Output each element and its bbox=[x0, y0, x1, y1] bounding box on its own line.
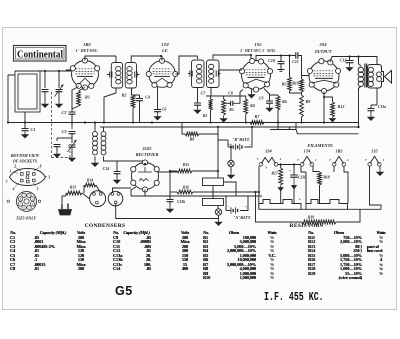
AC plug bbox=[62, 204, 68, 210]
filament 1T4 bbox=[303, 156, 312, 163]
wire trans pri bottom bbox=[358, 92, 360, 128]
svg-text:5: 5 bbox=[265, 166, 267, 170]
trimmer cap T2b bbox=[216, 71, 220, 77]
wire blocks bottom link bbox=[301, 208, 381, 210]
svg-text:C4: C4 bbox=[145, 95, 150, 100]
wire tube3 top bbox=[256, 56, 295, 61]
svg-text:C8: C8 bbox=[228, 92, 233, 96]
IF transformer T1 secondary bbox=[125, 63, 136, 89]
pilot lamp 2 bbox=[217, 206, 219, 210]
svg-text:C1: C1 bbox=[31, 127, 36, 132]
wire loop bottom to C1 bbox=[24, 112, 26, 128]
battery block B bbox=[306, 200, 348, 210]
wire osc coil tops bbox=[95, 123, 104, 132]
svg-text:7: 7 bbox=[365, 158, 367, 162]
wire tube4 bottom bbox=[323, 92, 325, 124]
svg-text:4: 4 bbox=[12, 187, 15, 191]
wire tube1 grid bbox=[66, 70, 72, 71]
svg-text:C13b: C13b bbox=[298, 176, 306, 180]
wire tube3 grid left bbox=[219, 65, 242, 70]
resistor R5b bbox=[289, 56, 291, 78]
battery block A bbox=[259, 196, 301, 210]
variable capacitor tuning B bbox=[58, 71, 60, 88]
wire fil drops bbox=[259, 166, 381, 209]
wire T1 pri bottom bbox=[104, 88, 116, 123]
svg-text:FILAMENTS: FILAMENTS bbox=[307, 143, 333, 148]
tube V3 1S5 bbox=[242, 61, 271, 90]
svg-text:7: 7 bbox=[329, 158, 331, 162]
svg-text:BOTTOM VIEW: BOTTOM VIEW bbox=[10, 153, 40, 158]
wire fil links bbox=[333, 166, 335, 172]
pilot lamp 1 bbox=[230, 147, 232, 160]
svg-text:RECTIFIER: RECTIFIER bbox=[136, 152, 159, 157]
filament 1R5 bbox=[335, 156, 344, 163]
wire tube1 osc grid bbox=[72, 87, 79, 110]
svg-text:R6: R6 bbox=[282, 99, 287, 104]
svg-text:+: + bbox=[289, 169, 291, 173]
switch circle 1 bbox=[90, 191, 106, 207]
resistor R1 bbox=[79, 88, 86, 92]
wire rect bottom bbox=[131, 187, 218, 196]
tube V4 3S4 bbox=[309, 61, 339, 91]
svg-text:2 ˉ DET-AVC-1 ˉ AUD.: 2 ˉ DET-AVC-1 ˉ AUD. bbox=[239, 49, 275, 53]
ground tube3 cathode bbox=[251, 90, 253, 92]
svg-text:1T4: 1T4 bbox=[161, 42, 169, 47]
junction dots bbox=[44, 70, 46, 72]
svg-text:3: 3 bbox=[47, 176, 50, 180]
trimmer cap T2a bbox=[188, 71, 192, 77]
wire T1 sec bottom bbox=[131, 88, 133, 92]
wire audio node bbox=[206, 88, 246, 96]
ground tuning A bbox=[42, 101, 48, 107]
wire T2 top link bbox=[213, 55, 251, 60]
wire tube2 top bbox=[131, 56, 162, 63]
filament 1S5 bbox=[370, 156, 379, 163]
svg-text:"A"BATT.: "A"BATT. bbox=[233, 215, 251, 220]
wire tube4 top plate bbox=[330, 57, 359, 65]
socket bottom view 7pin bbox=[10, 169, 46, 186]
svg-text:7: 7 bbox=[257, 157, 259, 161]
svg-text:5: 5 bbox=[37, 187, 39, 191]
ground fil 1S5 bbox=[379, 166, 381, 169]
svg-text:R18: R18 bbox=[323, 176, 329, 180]
svg-text:C12: C12 bbox=[340, 58, 347, 63]
resistor R3 bbox=[209, 99, 213, 110]
wire osc coil right bottom bbox=[104, 157, 146, 162]
wire A batt bbox=[218, 196, 262, 211]
loop antenna L1 bbox=[15, 71, 40, 112]
resistor R12 bbox=[324, 97, 333, 102]
wire padder branch bbox=[57, 137, 72, 139]
svg-text:C13b: C13b bbox=[177, 200, 185, 204]
output transformer T3 secondary bbox=[368, 65, 384, 89]
IF transformer T1 primary bbox=[111, 63, 122, 89]
wire antenna left drop bbox=[8, 75, 15, 123]
capacitor padder bbox=[54, 145, 61, 147]
oscillator coil L2 bbox=[93, 132, 98, 137]
svg-text:R12: R12 bbox=[338, 104, 345, 109]
svg-text:C9: C9 bbox=[259, 96, 264, 101]
svg-text:R16: R16 bbox=[183, 186, 189, 190]
ground tuning B bbox=[56, 101, 62, 107]
svg-text:C10: C10 bbox=[268, 58, 275, 63]
svg-text:−: − bbox=[227, 205, 229, 209]
speaker bbox=[385, 71, 392, 84]
svg-text:1 ˉ DET-OSC.: 1 ˉ DET-OSC. bbox=[76, 48, 99, 53]
battery B bbox=[228, 146, 231, 148]
ground osc coil bbox=[92, 160, 98, 166]
ground osc tune bbox=[69, 155, 75, 161]
wire osc coil bottoms bbox=[94, 157, 96, 161]
wire R13 up bbox=[65, 193, 67, 196]
svg-text:R19: R19 bbox=[308, 216, 314, 220]
wire switch2 to rect bbox=[113, 188, 132, 193]
svg-text:1R5: 1R5 bbox=[336, 149, 343, 154]
resistor R10 bbox=[300, 79, 304, 92]
svg-text:R8: R8 bbox=[190, 137, 195, 142]
wire blocks link bbox=[213, 182, 236, 199]
wire tube1 plate top bbox=[85, 56, 116, 61]
switch circle 2 bbox=[108, 191, 123, 206]
svg-text:R5: R5 bbox=[229, 108, 234, 112]
resistor R4 bbox=[244, 99, 248, 114]
svg-text:1S5: 1S5 bbox=[371, 149, 378, 154]
fil bus bbox=[230, 191, 259, 193]
capacitor C1 bbox=[22, 129, 29, 131]
battery A bbox=[226, 210, 231, 212]
svg-text:C14: C14 bbox=[103, 166, 110, 171]
svg-text:7: 7 bbox=[297, 158, 299, 162]
wire trans sec top bbox=[359, 57, 378, 65]
svg-text:C13a: C13a bbox=[378, 105, 386, 109]
resistor R7 bbox=[250, 121, 264, 125]
svg-text:8: 8 bbox=[40, 165, 42, 169]
volume control R5 bbox=[222, 99, 226, 115]
svg-text:C6: C6 bbox=[162, 107, 167, 112]
wire drop x218 bbox=[217, 127, 219, 178]
IF transformer T2 primary bbox=[192, 60, 205, 88]
svg-text:OF SOCKETS: OF SOCKETS bbox=[13, 159, 38, 164]
svg-text:−: − bbox=[249, 143, 251, 147]
svg-text:R9: R9 bbox=[306, 99, 311, 104]
wire tube2 plate right bbox=[175, 56, 197, 74]
svg-text:R10: R10 bbox=[292, 82, 298, 86]
resistor R8 bbox=[182, 123, 185, 135]
IF transformer T2 secondary bbox=[207, 60, 220, 88]
svg-text:1T4: 1T4 bbox=[304, 149, 311, 154]
svg-text:2: 2 bbox=[13, 165, 16, 169]
wire switch bottom bbox=[116, 204, 218, 219]
svg-text:R5: R5 bbox=[282, 82, 287, 87]
svg-text:R4: R4 bbox=[250, 103, 255, 108]
wire antenna top bbox=[15, 70, 71, 72]
trimmer cap T1a bbox=[107, 72, 112, 78]
svg-text:3S4: 3S4 bbox=[264, 149, 272, 154]
svg-text:R14: R14 bbox=[87, 179, 93, 183]
svg-text:1S5: 1S5 bbox=[254, 42, 262, 47]
tube V2 1T4 bbox=[149, 61, 176, 88]
ground below C1 bbox=[22, 132, 28, 138]
wire rect cathode right bbox=[159, 171, 178, 173]
svg-text:+: + bbox=[245, 205, 247, 209]
svg-text:1: 1 bbox=[347, 158, 349, 162]
bus main A bbox=[8, 122, 359, 124]
svg-text:C11: C11 bbox=[292, 59, 298, 64]
bus main B bbox=[100, 126, 359, 128]
svg-text:R1: R1 bbox=[85, 95, 90, 100]
wire fil 1T4 link bbox=[301, 166, 306, 172]
tube V5 35Z5 bbox=[132, 163, 159, 190]
svg-text:R2: R2 bbox=[122, 93, 127, 98]
svg-text:7: 7 bbox=[6, 180, 8, 184]
svg-text:OUTPUT: OUTPUT bbox=[315, 49, 332, 54]
wire trans sec bottom bbox=[376, 88, 378, 105]
svg-text:35Z5: 35Z5 bbox=[141, 146, 152, 151]
tube V1 1R5 bbox=[72, 61, 99, 88]
svg-text:C2: C2 bbox=[62, 110, 67, 115]
svg-text:R15: R15 bbox=[183, 163, 189, 167]
svg-text:R13: R13 bbox=[70, 186, 76, 190]
filament 3S4 (double) bbox=[262, 158, 276, 164]
variable capacitor osc tune bbox=[69, 145, 76, 147]
wire fil 3S4 to 1T4 bbox=[278, 164, 301, 166]
svg-text:"B"BATT.: "B"BATT. bbox=[232, 137, 250, 142]
svg-text:1: 1 bbox=[280, 157, 282, 161]
svg-text:1: 1 bbox=[10, 170, 12, 174]
gang dashed link bbox=[52, 92, 71, 158]
svg-text:35Z5 ONLY: 35Z5 ONLY bbox=[15, 216, 37, 221]
capacitor trimmer A bbox=[44, 71, 46, 88]
svg-text:3S4: 3S4 bbox=[318, 42, 327, 47]
svg-text:R3: R3 bbox=[203, 114, 208, 118]
resistor R6 bbox=[276, 96, 280, 110]
svg-text:1: 1 bbox=[383, 158, 385, 162]
filament supply line bbox=[270, 123, 359, 134]
svg-text:1R5: 1R5 bbox=[83, 42, 91, 47]
capacitor C9 bbox=[264, 89, 270, 101]
svg-text:1: 1 bbox=[315, 158, 317, 162]
output transformer T3 core bbox=[365, 64, 367, 88]
output transformer T3 primary bbox=[359, 64, 362, 66]
wire B batt left bbox=[218, 140, 228, 147]
capacitor C7 bbox=[197, 88, 199, 103]
svg-text:I.F.: I.F. bbox=[161, 48, 168, 53]
block ballast 2 bbox=[203, 199, 224, 206]
svg-text:R17: R17 bbox=[271, 172, 278, 176]
wire plug up bbox=[62, 196, 66, 203]
socket bottom view octal bbox=[17, 191, 37, 211]
block ballast 1 bbox=[203, 178, 224, 186]
svg-text:C3: C3 bbox=[62, 129, 67, 134]
wire T1 top link bbox=[115, 56, 117, 63]
svg-text:Continental: Continental bbox=[17, 50, 63, 61]
trimmer cap T1b bbox=[135, 72, 140, 78]
Continental logo box bbox=[14, 46, 67, 62]
resistor R9 bbox=[290, 91, 302, 95]
